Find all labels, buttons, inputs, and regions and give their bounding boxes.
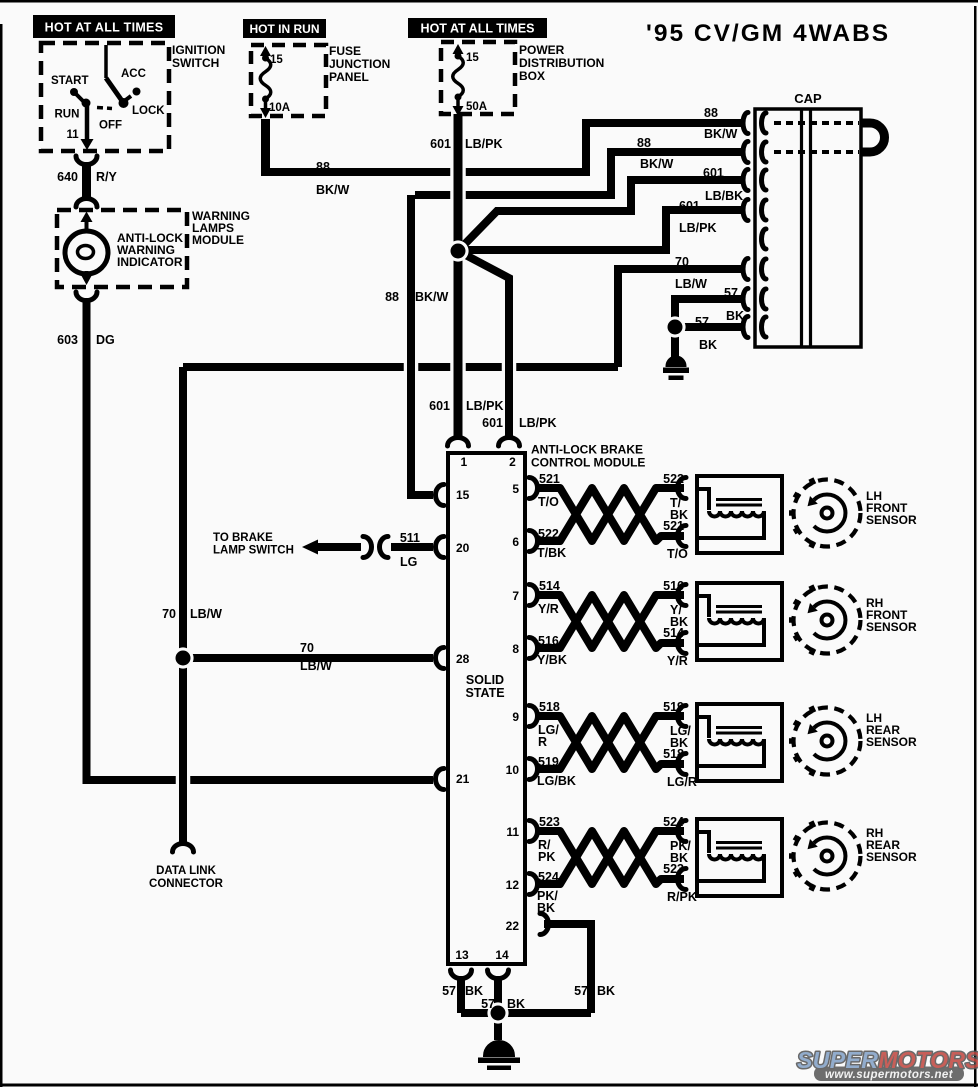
svg-text:INDICATOR: INDICATOR — [117, 255, 183, 269]
svg-text:BK: BK — [537, 901, 555, 915]
svg-text:MODULE: MODULE — [192, 233, 244, 247]
svg-text:518: 518 — [663, 747, 684, 761]
svg-text:SWITCH: SWITCH — [172, 56, 219, 70]
svg-text:601: 601 — [703, 166, 724, 180]
svg-text:8: 8 — [512, 642, 519, 656]
svg-text:1: 1 — [461, 455, 468, 469]
svg-text:518: 518 — [539, 700, 560, 714]
svg-text:88: 88 — [385, 290, 399, 304]
svg-text:CONTROL MODULE: CONTROL MODULE — [531, 456, 645, 470]
svg-text:57: 57 — [724, 286, 738, 300]
svg-text:15: 15 — [270, 54, 283, 66]
svg-text:601: 601 — [679, 199, 700, 213]
svg-text:11: 11 — [67, 129, 80, 141]
svg-text:LB/PK: LB/PK — [679, 221, 717, 235]
svg-text:521: 521 — [663, 519, 684, 533]
svg-text:R/Y: R/Y — [96, 170, 118, 184]
svg-text:14: 14 — [495, 948, 509, 962]
svg-text:BK: BK — [597, 984, 615, 998]
svg-text:Y/BK: Y/BK — [537, 653, 567, 667]
svg-text:'95 CV/GM 4WABS: '95 CV/GM 4WABS — [646, 20, 890, 47]
svg-text:T/O: T/O — [538, 495, 559, 509]
svg-text:20: 20 — [456, 541, 470, 555]
svg-text:T/O: T/O — [667, 547, 688, 561]
svg-text:Y/R: Y/R — [667, 654, 688, 668]
svg-text:LB/BK: LB/BK — [705, 189, 743, 203]
svg-text:T/BK: T/BK — [537, 546, 566, 560]
svg-text:LB/W: LB/W — [190, 607, 222, 621]
svg-text:DG: DG — [96, 333, 115, 347]
svg-text:PANEL: PANEL — [329, 70, 369, 84]
svg-text:PK: PK — [538, 850, 555, 864]
svg-text:57: 57 — [695, 315, 709, 329]
svg-text:JUNCTION: JUNCTION — [329, 57, 390, 71]
svg-text:9: 9 — [512, 710, 519, 724]
svg-text:R: R — [538, 735, 547, 749]
svg-text:516: 516 — [538, 634, 559, 648]
svg-text:601: 601 — [430, 137, 451, 151]
svg-text:6: 6 — [512, 535, 519, 549]
svg-text:POWER: POWER — [519, 43, 565, 57]
svg-text:CONNECTOR: CONNECTOR — [149, 878, 224, 890]
svg-text:LB/PK: LB/PK — [519, 416, 557, 430]
svg-text:10A: 10A — [269, 102, 290, 114]
svg-text:BK: BK — [465, 984, 483, 998]
svg-text:HOT AT ALL TIMES: HOT AT ALL TIMES — [421, 22, 535, 36]
svg-text:SENSOR: SENSOR — [866, 620, 917, 634]
svg-text:12: 12 — [506, 878, 520, 892]
svg-text:Y/R: Y/R — [538, 602, 559, 616]
svg-text:BK: BK — [507, 997, 525, 1011]
svg-text:521: 521 — [539, 472, 560, 486]
svg-text:28: 28 — [456, 652, 470, 666]
svg-text:523: 523 — [539, 815, 560, 829]
svg-text:SOLID: SOLID — [466, 673, 504, 687]
svg-text:SENSOR: SENSOR — [866, 850, 917, 864]
svg-text:LAMP SWITCH: LAMP SWITCH — [213, 545, 294, 557]
svg-text:BK/W: BK/W — [316, 183, 350, 197]
svg-text:22: 22 — [506, 919, 520, 933]
svg-text:10: 10 — [506, 763, 520, 777]
svg-text:511: 511 — [400, 531, 420, 545]
svg-text:LB/W: LB/W — [675, 277, 707, 291]
svg-text:TO BRAKE: TO BRAKE — [213, 532, 273, 544]
svg-text:www.supermotors.net: www.supermotors.net — [825, 1069, 954, 1081]
svg-text:BK/W: BK/W — [704, 127, 738, 141]
svg-text:IGNITION: IGNITION — [172, 43, 225, 57]
svg-text:603: 603 — [57, 333, 78, 347]
svg-text:2: 2 — [509, 455, 516, 469]
svg-text:BK: BK — [726, 309, 744, 323]
svg-text:DISTRIBUTION: DISTRIBUTION — [519, 56, 604, 70]
svg-text:57: 57 — [574, 984, 588, 998]
svg-text:FUSE: FUSE — [329, 44, 361, 58]
svg-text:514: 514 — [539, 579, 560, 593]
svg-text:57: 57 — [442, 984, 456, 998]
svg-text:SENSOR: SENSOR — [866, 513, 917, 527]
svg-text:DATA LINK: DATA LINK — [156, 865, 217, 877]
svg-text:ACC: ACC — [121, 68, 146, 80]
svg-text:640: 640 — [57, 170, 78, 184]
svg-text:HOT AT ALL TIMES: HOT AT ALL TIMES — [45, 21, 164, 35]
svg-text:70: 70 — [162, 607, 176, 621]
svg-text:601: 601 — [429, 399, 450, 413]
svg-text:522: 522 — [663, 472, 684, 486]
svg-text:CAP: CAP — [794, 91, 822, 106]
svg-text:BK/W: BK/W — [415, 290, 449, 304]
svg-text:523: 523 — [663, 862, 684, 876]
svg-text:15: 15 — [456, 488, 470, 502]
svg-text:5: 5 — [512, 482, 519, 496]
svg-text:LB/PK: LB/PK — [465, 137, 503, 151]
svg-text:524: 524 — [663, 815, 684, 829]
svg-text:519: 519 — [538, 755, 559, 769]
svg-text:57: 57 — [481, 997, 495, 1011]
svg-text:13: 13 — [455, 948, 469, 962]
svg-text:514: 514 — [663, 626, 684, 640]
svg-text:LB/W: LB/W — [300, 659, 332, 673]
svg-text:519: 519 — [663, 700, 684, 714]
svg-text:50A: 50A — [466, 101, 487, 113]
svg-text:11: 11 — [506, 825, 519, 839]
svg-text:LG/BK: LG/BK — [537, 774, 576, 788]
svg-text:88: 88 — [637, 136, 651, 150]
svg-text:LB/PK: LB/PK — [466, 399, 504, 413]
svg-text:R/PK: R/PK — [667, 890, 697, 904]
svg-text:524: 524 — [538, 870, 559, 884]
svg-text:RUN: RUN — [55, 109, 80, 121]
svg-text:522: 522 — [538, 527, 559, 541]
svg-text:516: 516 — [663, 579, 684, 593]
svg-text:BK: BK — [699, 338, 717, 352]
svg-text:88: 88 — [316, 160, 330, 174]
svg-text:LOCK: LOCK — [132, 105, 165, 117]
svg-text:SENSOR: SENSOR — [866, 735, 917, 749]
svg-text:21: 21 — [456, 772, 470, 786]
svg-text:15: 15 — [466, 52, 479, 64]
svg-text:HOT IN RUN: HOT IN RUN — [250, 22, 320, 36]
svg-text:STATE: STATE — [465, 686, 504, 700]
svg-text:BOX: BOX — [519, 69, 545, 83]
svg-text:7: 7 — [512, 589, 519, 603]
svg-text:LG: LG — [400, 555, 417, 569]
svg-text:START: START — [51, 75, 88, 87]
svg-text:601: 601 — [482, 416, 503, 430]
svg-text:ANTI-LOCK BRAKE: ANTI-LOCK BRAKE — [531, 443, 643, 457]
svg-text:88: 88 — [704, 106, 718, 120]
svg-text:BK/W: BK/W — [640, 157, 674, 171]
svg-text:LG/R: LG/R — [667, 775, 697, 789]
svg-text:70: 70 — [675, 255, 689, 269]
svg-text:OFF: OFF — [99, 120, 122, 132]
svg-text:70: 70 — [300, 641, 314, 655]
